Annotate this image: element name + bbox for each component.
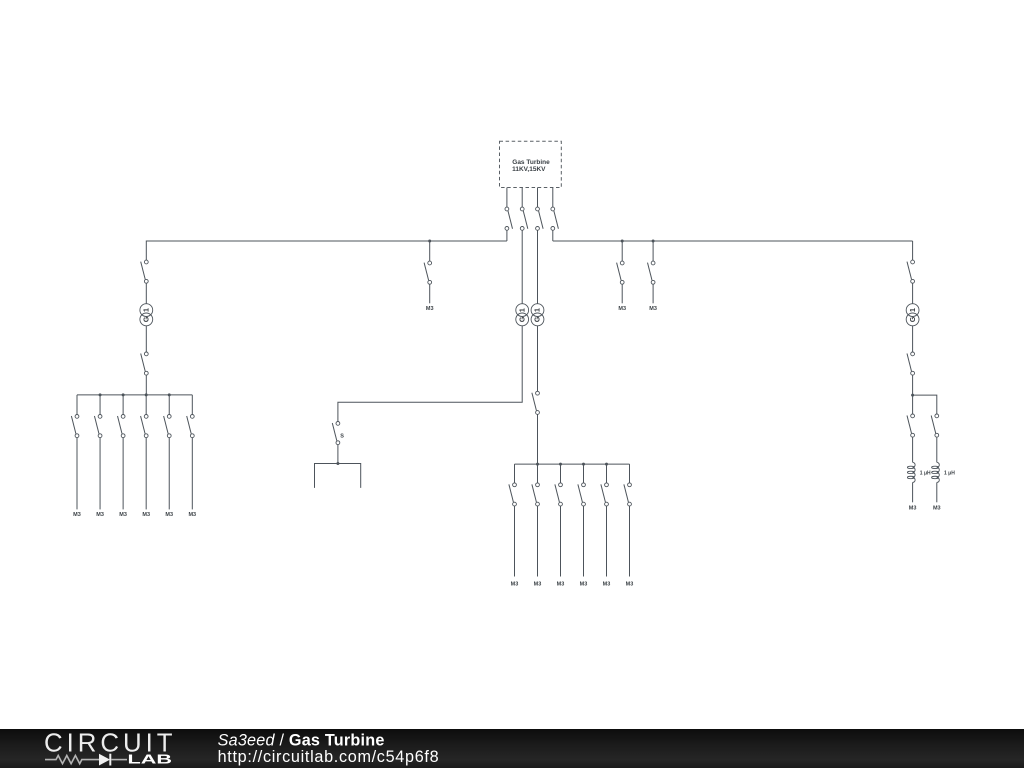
svg-text:Gas Turbine: Gas Turbine (512, 159, 550, 166)
inductor L2 1 uH (932, 462, 940, 482)
stub bus with two drops (315, 464, 361, 488)
wire generator lead 4 (552, 188, 554, 208)
switch S (332, 422, 340, 445)
transformer T2 (center left) (516, 304, 529, 326)
left MCC bus (77, 394, 192, 396)
svg-text:1: 1 (535, 308, 542, 312)
breaker SW-CM5 (601, 483, 608, 506)
breaker SW-R1 (617, 261, 625, 284)
breaker SW-LM1 (71, 415, 79, 438)
wire center motor feeder 6 (629, 506, 631, 577)
wire to stub bus (337, 445, 339, 464)
breaker SW-CM6 (624, 483, 631, 506)
wire motor feeder (621, 284, 623, 303)
junction right branch (911, 394, 914, 397)
wire left feeder 1 drop (76, 395, 78, 415)
wire right branch (913, 395, 937, 414)
wire center motor feeder 2 (537, 506, 539, 577)
wire center feeder 3 drop (560, 464, 562, 483)
breaker CB1 (generator feeder 1) (505, 207, 513, 230)
junction center bus 2 (559, 463, 562, 466)
breaker SW-CM3 (555, 483, 562, 506)
svg-text:S: S (340, 433, 344, 439)
junction main bus at M3 feeder 2 (652, 240, 655, 243)
wire drop (429, 241, 431, 261)
svg-text:M3: M3 (580, 581, 588, 587)
wire generator lead 3 (537, 188, 539, 208)
wire to main bus left (506, 230, 508, 241)
svg-text:M3: M3 (557, 581, 565, 587)
junction left bus 4 (168, 393, 171, 396)
breaker SW-LM2 (94, 415, 102, 438)
svg-text:Sa3eed / Gas Turbine: Sa3eed / Gas Turbine (218, 732, 385, 750)
svg-text:M3: M3 (188, 512, 196, 518)
junction center bus 3 (582, 463, 585, 466)
junction stub bus (336, 462, 339, 465)
wire left feeder 6 drop (191, 395, 193, 415)
generator box: Gas Turbine 11KV,15KV (500, 141, 562, 187)
svg-text:G: G (535, 316, 542, 322)
breaker SW-LM5 (164, 415, 172, 438)
svg-text:M3: M3 (626, 581, 634, 587)
svg-text:1 μH: 1 μH (944, 470, 955, 476)
wire to left MCC bus (145, 375, 147, 395)
wire center feeder 5 drop (606, 464, 608, 483)
breaker SW-LM6 (187, 415, 195, 438)
logo diode symbol (99, 754, 127, 766)
breaker SW-CM4 (578, 483, 585, 506)
wire left leg drop (912, 395, 914, 414)
transformer T3 (center right) (531, 304, 544, 326)
junction center bus 1 (536, 463, 539, 466)
breaker SW-M0 (424, 261, 432, 284)
svg-text:M3: M3 (119, 512, 127, 518)
junction left bus 3 (145, 393, 148, 396)
main bus left segment (147, 240, 507, 242)
wire left feeder 5 drop (168, 395, 170, 415)
main bus right segment (553, 240, 913, 242)
wire left motor feeder 6 (191, 438, 193, 510)
svg-text:M3: M3 (73, 512, 81, 518)
breaker SW-LM3 (118, 415, 126, 438)
junction main bus at M3 feeder 1 (621, 240, 624, 243)
wire (912, 437, 914, 462)
wire center motor feeder 4 (583, 506, 585, 577)
wire left feeder 3 drop (122, 395, 124, 415)
breaker CB3 (generator feeder 3) (536, 207, 544, 230)
wire center motor feeder 5 (606, 506, 608, 577)
wire to S branch (338, 326, 522, 422)
wire (936, 483, 938, 503)
breaker SW-L2 (141, 352, 149, 375)
svg-text:M3: M3 (511, 581, 519, 587)
breaker SW-L1 (141, 260, 149, 283)
breaker CB4 (generator feeder 4) (551, 207, 559, 230)
svg-text:G: G (519, 316, 526, 322)
wire generator lead 1 (506, 188, 508, 208)
wire center motor feeder 1 (514, 506, 516, 577)
wire to center MCC bus (537, 414, 539, 464)
wire left feeder 4 drop (145, 395, 147, 415)
breaker SW-CM1 (509, 483, 516, 506)
wire main bus to right feeder (912, 241, 914, 260)
svg-text:1: 1 (519, 308, 526, 312)
wire (912, 483, 914, 503)
wire center motor feeder 3 (560, 506, 562, 577)
junction center bus 4 (605, 463, 608, 466)
center MCC bus (515, 463, 630, 465)
wire (912, 375, 914, 395)
inductor L1 1 uH (907, 462, 915, 482)
svg-text:1: 1 (143, 308, 150, 312)
wire left motor feeder 1 (76, 438, 78, 510)
breaker CB2 (generator feeder 2) (520, 207, 528, 230)
breaker SW-LM4 (141, 415, 149, 438)
svg-text:1: 1 (910, 308, 917, 312)
wire center feeder 6 drop (629, 464, 631, 483)
svg-text:11KV,15KV: 11KV,15KV (512, 166, 546, 173)
breaker SW-CM2 (532, 483, 539, 506)
wire to main bus right (552, 230, 554, 241)
breaker SW-R2 (648, 261, 655, 284)
svg-text:LAB: LAB (128, 752, 173, 766)
wire main bus to left feeder (145, 241, 147, 260)
svg-text:M3: M3 (165, 512, 173, 518)
svg-text:M3: M3 (603, 581, 611, 587)
svg-text:http://circuitlab.com/c54p6f8: http://circuitlab.com/c54p6f8 (218, 748, 439, 766)
svg-text:M3: M3 (96, 512, 104, 518)
wire generator feeder 3 down (537, 230, 539, 303)
transformer T1 (left) (140, 304, 153, 326)
breaker SW-RL2 (931, 414, 938, 437)
svg-text:M3: M3 (909, 505, 917, 511)
wire (912, 283, 914, 304)
wire drop (621, 241, 623, 261)
junction left bus 2 (122, 393, 125, 396)
logo resistor symbol (45, 756, 99, 764)
svg-text:M3: M3 (142, 512, 150, 518)
wire left feeder 2 drop (99, 395, 101, 415)
breaker SW-RL1 (907, 414, 914, 437)
junction main bus at M3 feeder (428, 240, 431, 243)
wire left motor feeder 5 (168, 438, 170, 510)
breaker SW-C1 (532, 391, 539, 414)
wire (145, 283, 147, 304)
svg-text:M3: M3 (933, 505, 941, 511)
wire (936, 437, 938, 462)
wire center feeder 4 drop (583, 464, 585, 483)
wire motor feeder (652, 284, 654, 303)
svg-text:M3: M3 (426, 306, 434, 312)
breaker SW-R10 (907, 260, 914, 283)
wire (145, 326, 147, 352)
wire center feeder 1 drop (514, 464, 516, 483)
wire generator feeder 2 down (521, 230, 523, 303)
wire left motor feeder 4 (145, 438, 147, 510)
wire drop (652, 241, 654, 261)
wire center feeder 2 drop (537, 464, 539, 483)
wire motor feeder (429, 284, 431, 303)
junction left bus 1 (99, 393, 102, 396)
wire (537, 326, 539, 392)
breaker SW-R11 (907, 352, 914, 375)
wire left motor feeder 3 (122, 438, 124, 510)
svg-text:G: G (144, 316, 151, 322)
wire generator lead 2 (521, 188, 523, 208)
wire left motor feeder 2 (99, 438, 101, 510)
footer bar (0, 729, 1024, 768)
svg-text:M3: M3 (649, 306, 657, 312)
svg-text:M3: M3 (618, 306, 626, 312)
svg-text:M3: M3 (534, 581, 542, 587)
svg-text:G: G (910, 316, 917, 322)
svg-text:1 μH: 1 μH (920, 470, 931, 476)
wire (912, 326, 914, 352)
transformer T4 (right) (906, 304, 919, 326)
